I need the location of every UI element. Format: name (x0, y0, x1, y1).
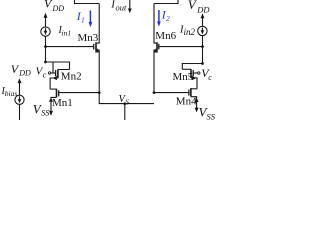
svg-text:SS: SS (41, 109, 49, 118)
svg-text:out: out (116, 3, 128, 13)
svg-text:in2: in2 (184, 27, 196, 37)
svg-text:S: S (126, 98, 130, 106)
svg-text:c: c (43, 70, 47, 79)
svg-text:c: c (208, 73, 212, 82)
svg-text:SS: SS (207, 112, 216, 121)
svg-text:V: V (188, 0, 198, 12)
svg-text:Mn2: Mn2 (61, 70, 82, 82)
svg-text:Mn6: Mn6 (155, 30, 176, 42)
svg-text:Mn5: Mn5 (173, 71, 194, 83)
svg-text:Mn4: Mn4 (176, 96, 197, 108)
svg-text:2: 2 (166, 14, 170, 23)
svg-text:DD: DD (52, 4, 65, 13)
svg-text:DD: DD (18, 69, 31, 78)
svg-text:in1: in1 (62, 29, 72, 38)
svg-text:1: 1 (81, 16, 85, 25)
svg-text:Mn3: Mn3 (78, 32, 99, 44)
svg-text:DD: DD (196, 4, 210, 14)
svg-text:Mn1: Mn1 (52, 97, 73, 109)
svg-text:bias: bias (5, 89, 18, 98)
